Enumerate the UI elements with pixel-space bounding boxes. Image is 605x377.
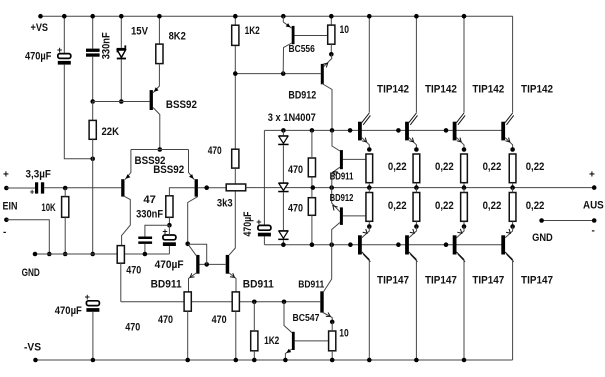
resistor 10 upper	[328, 25, 335, 44]
svg-text:10K: 10K	[41, 202, 55, 214]
node output rail junction col3	[462, 185, 467, 190]
svg-text:+: +	[57, 45, 62, 55]
label BD912 VAS	[288, 89, 316, 101]
diode D3 1N4007	[278, 230, 288, 245]
wire output rail	[246, 187, 595, 189]
label - input	[3, 227, 6, 238]
svg-text:330nF: 330nF	[136, 208, 163, 220]
node rail junction Q2	[414, 14, 419, 19]
wire R1l bottom lead	[368, 221, 370, 226]
label BC547	[293, 313, 320, 324]
transistor Q6 TIP147	[405, 227, 417, 361]
node rail junction Q3	[462, 14, 467, 19]
svg-text:3,3µF: 3,3µF	[26, 169, 52, 181]
node 22K bottom junction	[90, 157, 95, 162]
label 470uF C1	[25, 51, 52, 63]
label TIP142 Q2	[425, 84, 457, 96]
resistor 0,22 R4 upper	[509, 154, 516, 183]
wire protection to lower VAS	[324, 245, 332, 292]
svg-text:0,22: 0,22	[388, 161, 407, 173]
label 0,22 R2 upper	[435, 161, 454, 173]
resistor 1K2 lower	[251, 331, 258, 351]
wire TIP142 Q4 collector column	[512, 16, 514, 113]
svg-text:EIN: EIN	[3, 200, 18, 212]
capacitor C4 470uF GND decoupling	[85, 292, 100, 312]
transistor BD912 VAS	[321, 54, 332, 130]
svg-text:1K2: 1K2	[245, 25, 260, 37]
resistor 0,22 R2 upper	[413, 154, 420, 183]
wire 470l top lead	[311, 188, 313, 198]
svg-text:470µF: 470µF	[155, 259, 184, 271]
node Q5 emitter junction	[367, 224, 372, 229]
label + input	[3, 170, 9, 181]
node rail junction D4	[119, 14, 124, 19]
transistor BC556	[283, 16, 328, 73]
svg-text:TIP142: TIP142	[521, 84, 553, 96]
svg-text:+: +	[85, 292, 90, 302]
label GND AUS	[532, 232, 553, 244]
svg-text:TIP147: TIP147	[521, 275, 553, 287]
svg-text:470µF: 470µF	[55, 305, 82, 317]
label - AUS	[592, 226, 595, 237]
label 330nF C5	[136, 208, 163, 220]
svg-text:TIP147: TIP147	[425, 275, 457, 287]
svg-text:470µF: 470µF	[25, 51, 52, 63]
node output junction protection	[329, 185, 334, 190]
label 470 bias upper	[288, 164, 303, 176]
svg-text:470: 470	[288, 203, 303, 215]
svg-text:GND: GND	[532, 232, 553, 244]
svg-text:+: +	[3, 170, 9, 181]
wire C2 bottom to base wire	[92, 57, 94, 102]
svg-text:-: -	[3, 227, 6, 238]
node -VS junction BC547	[283, 358, 288, 363]
resistor 0,22 R4 lower	[509, 193, 516, 222]
svg-text:470µF: 470µF	[242, 211, 254, 236]
node Q6 emitter junction	[414, 224, 419, 229]
wire T1 base wire	[93, 101, 150, 103]
wire R2u bottom lead	[415, 183, 417, 188]
capacitor C1 470uF electrolytic	[57, 45, 71, 64]
resistor 0,22 R1 upper	[366, 154, 373, 183]
svg-text:AUS: AUS	[583, 200, 604, 212]
wire R5 bottom to lower wire	[120, 263, 122, 302]
node input junction 10K	[63, 186, 68, 191]
label TIP147 Q5	[377, 275, 409, 287]
transistor T1 BSS92 current source	[150, 64, 160, 150]
wire mirror right emitter lead	[235, 311, 237, 360]
svg-text:330nF: 330nF	[101, 32, 113, 59]
node Q2 emitter junction	[414, 147, 419, 152]
label BD911 VAS lower	[298, 279, 324, 290]
svg-text:BSS92: BSS92	[166, 99, 197, 111]
resistor 1K2 upper	[232, 25, 239, 45]
svg-text:0,22: 0,22	[388, 200, 407, 212]
capacitor C5 330nF	[138, 237, 152, 244]
node bus1 junction col3	[444, 128, 449, 133]
label 470 R5	[126, 265, 141, 277]
wire mirror base wire	[200, 263, 226, 265]
wire 1K2l top lead	[253, 302, 255, 331]
wire 10K bottom lead	[64, 217, 66, 254]
label 470 mirror left	[158, 314, 173, 326]
node Q7 emitter junction	[462, 224, 467, 229]
label BD911 protection	[330, 171, 354, 182]
node -VS junction 10R	[330, 358, 335, 363]
transistor T3 BSS92 right of pair	[188, 150, 198, 244]
svg-text:10: 10	[339, 328, 349, 340]
node bus2 junction diode	[281, 242, 286, 247]
label 470uF C4	[55, 305, 82, 317]
label +VS	[31, 22, 49, 34]
label BSS92 T3	[153, 164, 184, 176]
node junction 1K2 lower	[252, 300, 257, 305]
label 10 lower	[339, 328, 349, 340]
node -VS rail junction Q6	[414, 358, 419, 363]
svg-text:BD911: BD911	[151, 278, 182, 290]
label TIP142 Q4	[521, 84, 553, 96]
svg-text:0,22: 0,22	[526, 200, 545, 212]
label 0,22 R1 upper	[388, 161, 407, 173]
resistor 470 bias lower	[308, 198, 315, 216]
resistor 470 bias upper	[308, 158, 315, 177]
label 8K2	[169, 31, 186, 43]
svg-text:0,22: 0,22	[526, 161, 545, 173]
wire C4 bottom lead	[92, 312, 94, 360]
node output junction 470s	[311, 185, 316, 190]
svg-text:470: 470	[125, 322, 140, 334]
label 470 bias lower	[288, 203, 303, 215]
wire C7 bottom to bus2	[263, 236, 265, 244]
svg-text:15V: 15V	[131, 26, 149, 38]
node bus1 junction extra	[348, 128, 353, 133]
node GND junction minus	[47, 252, 52, 257]
wire to 330nF C5	[145, 225, 170, 236]
wire R1l top lead	[368, 188, 370, 193]
label 22K	[102, 126, 120, 138]
svg-text:+: +	[162, 227, 167, 237]
wire GND rail	[35, 253, 169, 255]
svg-text:+: +	[30, 188, 35, 197]
node Q3 emitter junction	[462, 147, 467, 152]
wire 330nF C2 top lead	[92, 16, 94, 48]
transistor BD911 VAS lower	[320, 291, 332, 322]
zener diode D4 15V	[117, 45, 127, 59]
node base wire junction at 92.7	[90, 99, 95, 104]
label 1K2 upper	[245, 25, 260, 37]
wire mirror diode connection	[188, 244, 207, 264]
transistor Q4 TIP142	[501, 113, 513, 150]
label 470 R7	[208, 145, 222, 157]
svg-text:22K: 22K	[102, 126, 120, 138]
wire bias bus lower	[264, 244, 505, 246]
label BC556	[289, 44, 316, 55]
node bus2 junction col3	[444, 242, 449, 247]
wire R4l top lead	[512, 188, 514, 193]
svg-text:BD911: BD911	[298, 279, 324, 290]
node bus1 junction 470	[310, 128, 315, 133]
node GND stub right	[592, 218, 597, 223]
node bus2 junction VAS	[329, 242, 334, 247]
svg-text:BC556: BC556	[289, 44, 316, 55]
node junction BC556 collector	[281, 71, 286, 76]
wire bias bus upper	[264, 129, 505, 131]
label 470 mirror right	[212, 314, 227, 326]
transistor Q3 TIP142	[453, 113, 465, 150]
wire 22K column	[92, 102, 94, 121]
wire bias corner down	[263, 130, 265, 225]
wire tail wire	[131, 149, 189, 151]
wire feedback column 1K2-470	[234, 45, 236, 149]
transistor Q8 TIP147	[501, 227, 513, 361]
node Q1 emitter junction	[367, 147, 372, 152]
resistor 470 mirror right	[232, 292, 239, 311]
wire R7 bottom to 3k3 node	[234, 168, 236, 184]
wire 47 top lead to T3 base	[169, 188, 194, 196]
node junction BD911l emitter	[330, 320, 335, 325]
svg-text:BC547: BC547	[293, 313, 320, 324]
wire D1-D2	[282, 145, 284, 182]
label BSS92 T1	[166, 99, 197, 111]
node output rail junction col2	[414, 185, 419, 190]
transistor T9 BD911 mirror right	[226, 255, 236, 292]
svg-text:BD911: BD911	[330, 171, 354, 182]
resistor 470 mirror left	[184, 292, 191, 311]
resistor 0,22 R1 lower	[366, 193, 373, 222]
node tail cap junction	[167, 223, 172, 228]
wire 1K2 top lead	[234, 16, 236, 25]
resistor 8K2	[156, 44, 163, 64]
transistor BD912 protection	[332, 188, 366, 245]
svg-text:+: +	[256, 217, 261, 227]
label 0,22 R1 lower	[388, 200, 407, 212]
node rail junction 1K2	[233, 14, 238, 19]
node bus1 junction col2	[396, 128, 401, 133]
wire C5 bottom lead	[144, 244, 146, 254]
label BD912 protection	[330, 193, 354, 204]
label 10 upper	[340, 24, 350, 36]
svg-text:10: 10	[340, 24, 350, 36]
transistor T2 BSS92 left of pair	[121, 150, 131, 246]
resistor 470 R7	[232, 149, 239, 168]
node rail junction 8K2	[157, 14, 162, 19]
svg-text:BSS92: BSS92	[153, 164, 184, 176]
node junction BC547 collector	[282, 300, 287, 305]
node junction 1K2/BD912 base	[233, 71, 238, 76]
wire 470l bottom lead	[311, 215, 313, 244]
svg-text:470: 470	[288, 164, 303, 176]
svg-text:TIP142: TIP142	[425, 84, 457, 96]
svg-text:470: 470	[212, 314, 227, 326]
wire -VS bottom rail	[36, 359, 513, 361]
svg-text:BD912: BD912	[330, 193, 354, 204]
svg-text:0,22: 0,22	[435, 200, 454, 212]
svg-text:BD912: BD912	[288, 89, 316, 101]
wire +VS top rail	[41, 15, 513, 17]
wire input + to cap	[6, 187, 35, 189]
transistor Q7 TIP147	[453, 227, 465, 361]
svg-text:-: -	[592, 226, 595, 237]
label 47	[143, 194, 156, 206]
node GND junction 10K	[63, 252, 68, 257]
label -VS	[24, 342, 41, 354]
transistor Q1 TIP142	[358, 113, 370, 150]
label AUS	[583, 200, 604, 212]
wire TIP142 Q1 collector column	[368, 16, 370, 113]
svg-text:0,22: 0,22	[483, 200, 502, 212]
svg-text:470: 470	[158, 314, 173, 326]
label 470 input stage lower	[125, 322, 140, 334]
resistor 0,22 R3 upper	[461, 154, 468, 183]
svg-text:3k3: 3k3	[217, 197, 233, 209]
node rail junction BC556	[281, 14, 286, 19]
label BSS92 T2	[135, 155, 166, 167]
svg-text:-VS: -VS	[24, 342, 41, 354]
wire T3 base to feedback node	[198, 187, 226, 189]
wire R1u bottom lead	[368, 183, 370, 188]
transistor Q2 TIP142	[405, 113, 417, 150]
wire 3k3 node down to mirror	[229, 191, 235, 255]
node bus2 junction col2	[396, 242, 401, 247]
diode D2 1N4007	[278, 182, 288, 230]
label TIP147 Q7	[472, 275, 504, 287]
node bus1 junction VAS	[330, 128, 335, 133]
node rail junction Q1	[367, 14, 372, 19]
label 0,22 R3 upper	[483, 161, 502, 173]
capacitor C3 3,3uF	[30, 182, 44, 196]
wire D4 bottom to base wire	[120, 59, 122, 101]
node -VS junction 1K2	[252, 358, 257, 363]
node Q4 emitter junction	[510, 147, 515, 152]
wire 1K2l bottom lead	[253, 351, 255, 360]
wire R3l top lead	[463, 188, 465, 193]
transistor Q5 TIP147	[358, 227, 370, 361]
wire 10K top lead	[64, 188, 66, 197]
node -VS junction mirror right	[234, 358, 239, 363]
label BD911 mirror right	[243, 278, 274, 290]
label 0,22 R3 lower	[483, 200, 502, 212]
node -VS junction mirror left	[185, 358, 190, 363]
wire 10l top lead	[331, 322, 333, 331]
label 1K2 lower	[264, 335, 279, 347]
wire 22K bottom column to GND rail	[92, 139, 94, 254]
node rail junction C2	[90, 14, 95, 19]
wire C1 bottom to 22K bottom node	[64, 65, 92, 159]
wire input - to GND rail	[6, 220, 49, 254]
resistor 3k3 (horizontal)	[226, 184, 246, 191]
svg-text:470: 470	[208, 145, 222, 157]
wire speaker GND stub	[542, 220, 595, 222]
wire R2l top lead	[415, 188, 417, 193]
node bus2 junction extra	[348, 242, 353, 247]
wire C6 top lead	[168, 225, 170, 235]
wire 10l bottom lead	[331, 351, 333, 360]
label 10K	[41, 202, 55, 214]
wire 470uF C1 top lead	[63, 16, 65, 53]
label TIP147 Q8	[521, 275, 553, 287]
transistor BD911 protection	[332, 130, 366, 187]
wire mirror left emitter lead	[187, 311, 189, 360]
wire 10R top lead	[330, 16, 332, 25]
label + AUS	[589, 170, 595, 181]
svg-text:47: 47	[143, 194, 156, 206]
capacitor C7 470uF bias	[256, 217, 271, 237]
wire 470u bottom lead	[311, 177, 313, 188]
label EIN	[3, 200, 18, 212]
node -VS junction C4	[91, 358, 96, 363]
resistor 47	[166, 196, 173, 218]
label 3 x 1N4007	[268, 112, 316, 124]
transistor T8 BD911 mirror left	[188, 244, 200, 292]
node junction BD912 emitter	[329, 52, 334, 57]
node -VS rail junction Q7	[462, 358, 467, 363]
label TIP147 Q6	[425, 275, 457, 287]
node +VS left terminal	[38, 14, 43, 19]
svg-text:+: +	[589, 170, 595, 181]
resistor 0,22 R3 lower	[461, 193, 468, 222]
wire 47 bottom lead	[168, 217, 170, 225]
wire C6 bottom lead to GND rail end	[168, 246, 170, 254]
resistor 470 R5 (T2 drain load)	[117, 246, 124, 264]
wire R3l bottom lead	[463, 221, 465, 226]
diode D1 1N4007	[278, 130, 288, 145]
node GND rail junction at 92.7	[90, 252, 95, 257]
wire lower base bus	[121, 301, 320, 303]
node bus1 junction diode	[281, 128, 286, 133]
node -VS left terminal	[33, 358, 38, 363]
label BD911 mirror left	[151, 278, 182, 290]
capacitor C6 470uF tail	[162, 227, 176, 246]
svg-text:1K2: 1K2	[264, 335, 279, 347]
node mirror collector junction	[185, 242, 190, 247]
resistor 22K	[89, 120, 96, 139]
node tail junction	[158, 147, 163, 152]
svg-text:8K2: 8K2	[169, 31, 186, 43]
wire zener D4 top lead	[120, 16, 122, 48]
svg-text:GND: GND	[22, 267, 40, 279]
svg-text:0,22: 0,22	[435, 161, 454, 173]
node rail junction C1	[62, 14, 67, 19]
label 0,22 R4 upper	[526, 161, 545, 173]
node base wire junction at 121.3	[119, 99, 124, 104]
svg-text:BD911: BD911	[243, 278, 274, 290]
node input - terminal	[4, 218, 9, 223]
node feedback node A	[204, 185, 209, 190]
svg-text:0,22: 0,22	[483, 161, 502, 173]
svg-text:TIP147: TIP147	[472, 275, 504, 287]
wire R3u bottom lead	[463, 183, 465, 188]
label 470uF C6	[155, 259, 184, 271]
svg-text:TIP142: TIP142	[472, 84, 504, 96]
node GND stub left	[539, 218, 544, 223]
wire R2l bottom lead	[415, 221, 417, 226]
label 330nF C2 (vertical)	[101, 32, 113, 59]
wire R4u bottom lead	[512, 183, 514, 188]
svg-text:470: 470	[126, 265, 141, 277]
capacitor C2 330nF	[86, 49, 100, 57]
svg-text:TIP147: TIP147	[377, 275, 409, 287]
svg-text:+VS: +VS	[31, 22, 49, 34]
wire TIP142 Q3 collector column	[463, 16, 465, 113]
svg-text:TIP142: TIP142	[377, 84, 409, 96]
node input + terminal	[4, 186, 9, 191]
svg-text:3 x 1N4007: 3 x 1N4007	[268, 112, 316, 124]
node output + terminal	[592, 185, 597, 190]
wire TIP142 Q2 collector column	[415, 16, 417, 113]
label TIP142 Q1	[377, 84, 409, 96]
label GND	[22, 267, 40, 279]
node -VS rail junction Q5	[367, 358, 372, 363]
